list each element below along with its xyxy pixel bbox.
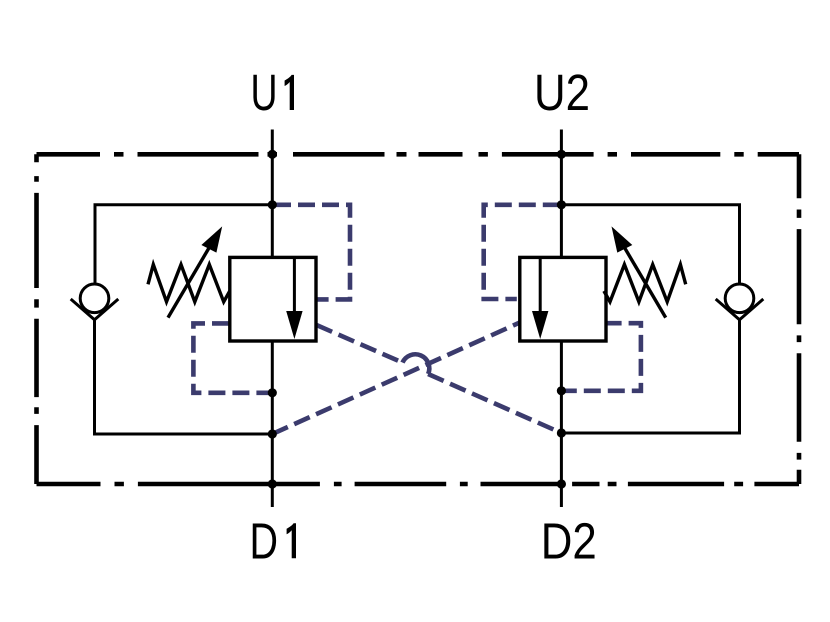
junction dot D2/border [557,479,566,488]
wire D1 lower main line [271,341,274,507]
pilot line CB1 lower loop (dashed) [193,323,270,392]
adjustment arrow CB1 [168,245,211,318]
wire U2 upper main line [560,130,563,258]
junction dot U2/border [557,150,566,159]
junction dot U2 branch [557,200,566,209]
junction dot right check branch [557,428,566,437]
check valve V1 circle [80,284,109,313]
pilot line CB1 upper loop (dashed) [274,205,350,300]
junction dot right pilot drain [557,386,566,395]
pilot crossing descending diagonal segment 2 [428,374,561,433]
wire left check-valve branch top [95,205,272,284]
envelope border bottom (dash-dot) [37,482,800,487]
envelope border left (dash-dot) [34,154,39,484]
adjustment arrow CB2 [623,245,666,318]
junction dot U1 branch [268,200,277,209]
junction dot U1/border [268,150,277,159]
pilot crossing descending diagonal segment 1 [317,325,403,363]
wire right check-valve branch top [561,205,739,284]
valve box CB2 [520,257,606,341]
valve box CB1 [230,257,316,341]
svg-text:U2: U2 [534,64,590,121]
pilot line CB2 lower loop (dashed) [564,323,641,391]
junction dot D1/border [268,479,277,488]
pilot line CB2 upper loop (dashed) [484,205,560,299]
junction dot left pilot drain [268,388,277,397]
junction dot left check branch [268,429,277,438]
wire right check-valve branch bottom [561,319,739,433]
valve CB2 internal flow arrow [539,257,542,313]
valve CB1 internal flow arrow [293,257,296,313]
envelope border top (dash-dot) [37,152,800,157]
pilot crossing ascending diagonal [272,323,520,435]
spring CB2 [604,265,686,302]
spring CB1 [148,265,230,302]
svg-text:D2: D2 [541,512,597,569]
envelope border right (dash-dot) [797,154,802,484]
wire left check-valve branch bottom [95,319,273,434]
check valve V2 seat [716,299,764,320]
wire D2 lower main line [560,341,563,507]
svg-text:U: U [251,64,278,121]
check valve V1 seat [71,299,119,320]
check valve V2 circle [725,284,754,313]
svg-text:D: D [250,512,279,569]
pilot crossing hop arc [403,354,430,374]
wire U1 upper main line [271,130,274,258]
